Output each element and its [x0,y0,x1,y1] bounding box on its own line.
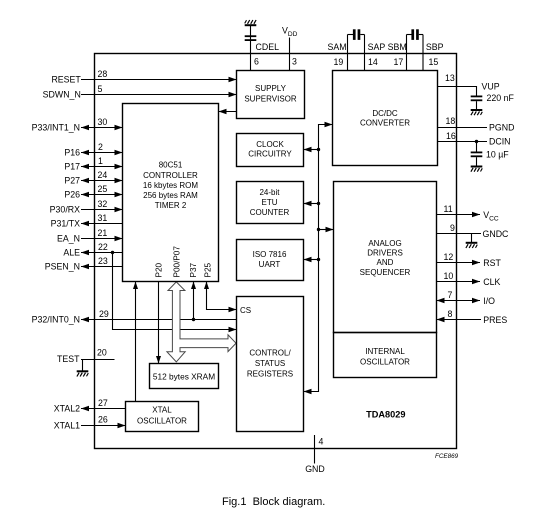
svg-text:21: 21 [98,228,108,238]
svg-text:6: 6 [254,57,259,67]
svg-text:STATUS: STATUS [255,359,285,368]
svg-text:REGISTERS: REGISTERS [247,370,293,379]
svg-text:P32/INT0_N: P32/INT0_N [32,315,80,325]
svg-text:EA_N: EA_N [57,234,80,244]
svg-text:2: 2 [98,142,103,152]
svg-text:7: 7 [448,290,453,300]
svg-text:SBM: SBM [388,42,407,52]
svg-text:23: 23 [98,256,108,266]
svg-text:XTAL: XTAL [152,406,172,415]
svg-text:CIRCUITRY: CIRCUITRY [248,150,292,159]
svg-text:22: 22 [98,242,108,252]
svg-text:P30/RX: P30/RX [50,205,80,215]
svg-text:P20: P20 [154,262,163,277]
svg-text:XTAL2: XTAL2 [54,404,80,414]
svg-text:TEST: TEST [57,354,80,364]
svg-text:GND: GND [305,464,325,474]
svg-text:COUNTER: COUNTER [250,208,290,217]
svg-text:15: 15 [429,57,439,67]
svg-text:OSCILLATOR: OSCILLATOR [360,358,410,367]
svg-text:SAM: SAM [328,42,347,52]
svg-text:9: 9 [450,223,455,233]
svg-text:CS: CS [240,306,251,315]
svg-text:10 µF: 10 µF [486,150,509,160]
svg-text:16 kbytes ROM: 16 kbytes ROM [143,181,198,190]
svg-text:P25: P25 [203,262,212,277]
svg-text:DC/DC: DC/DC [372,109,398,118]
svg-text:RST: RST [483,258,501,268]
svg-text:SDWN_N: SDWN_N [43,90,81,100]
svg-text:P31/TX: P31/TX [51,219,80,229]
svg-text:28: 28 [98,69,108,79]
svg-text:14: 14 [368,57,378,67]
svg-text:INTERNAL: INTERNAL [365,347,405,356]
svg-text:P16: P16 [64,148,80,158]
svg-text:Fig.1 Block diagram.: Fig.1 Block diagram. [222,496,325,508]
svg-text:24: 24 [98,170,108,180]
svg-text:UART: UART [259,260,281,269]
svg-text:512 bytes XRAM: 512 bytes XRAM [153,372,215,382]
svg-text:GNDC: GNDC [483,229,510,239]
svg-text:RESET: RESET [51,75,81,85]
svg-text:CONTROL/: CONTROL/ [249,349,291,358]
svg-text:FCE869: FCE869 [435,453,459,460]
svg-text:26: 26 [98,415,108,425]
svg-text:24-bit: 24-bit [259,188,280,197]
svg-text:I/O: I/O [483,296,495,306]
svg-text:18: 18 [446,116,456,126]
svg-text:P26: P26 [64,190,80,200]
svg-text:SBP: SBP [426,42,444,52]
svg-text:P37: P37 [189,262,198,277]
svg-text:32: 32 [98,199,108,209]
svg-text:PRES: PRES [483,315,507,325]
svg-text:17: 17 [394,57,404,67]
svg-text:ISO 7816: ISO 7816 [253,250,287,259]
svg-text:19: 19 [334,57,344,67]
svg-text:ETU: ETU [262,198,278,207]
svg-text:OSCILLATOR: OSCILLATOR [137,417,187,426]
svg-text:CLOCK: CLOCK [256,140,284,149]
svg-text:TDA8029: TDA8029 [366,410,405,420]
svg-text:CLK: CLK [483,277,500,287]
svg-text:10: 10 [444,271,454,281]
svg-text:XTAL1: XTAL1 [54,421,80,431]
svg-text:31: 31 [98,213,108,223]
svg-text:13: 13 [445,73,455,83]
svg-text:DCIN: DCIN [489,137,511,147]
svg-text:AND: AND [377,258,394,267]
svg-text:11: 11 [444,204,453,214]
svg-text:8: 8 [448,309,453,319]
svg-text:CONTROLLER: CONTROLLER [143,171,198,180]
svg-text:80C51: 80C51 [159,161,183,170]
svg-text:DRIVERS: DRIVERS [367,249,403,258]
svg-text:VUP: VUP [482,82,500,92]
svg-text:CONVERTER: CONVERTER [360,119,410,128]
svg-text:P33/INT1_N: P33/INT1_N [32,123,80,133]
svg-text:ALE: ALE [63,248,80,258]
svg-text:12: 12 [444,252,454,262]
svg-text:25: 25 [98,184,108,194]
svg-text:P17: P17 [64,162,80,172]
svg-text:16: 16 [446,131,456,141]
svg-text:20: 20 [97,348,107,358]
svg-text:P00/P07: P00/P07 [172,246,181,278]
svg-text:CDEL: CDEL [256,42,280,52]
svg-text:SUPPLY: SUPPLY [255,84,287,93]
svg-text:SUPERVISOR: SUPERVISOR [244,95,297,104]
svg-text:ANALOG: ANALOG [368,239,401,248]
svg-text:1: 1 [98,156,103,166]
svg-text:256 bytes RAM: 256 bytes RAM [143,191,198,200]
svg-text:5: 5 [98,84,103,94]
svg-text:TIMER 2: TIMER 2 [155,201,187,210]
svg-text:3: 3 [292,57,297,67]
svg-text:29: 29 [99,309,109,319]
svg-text:4: 4 [319,437,324,447]
svg-text:PSEN_N: PSEN_N [45,262,80,272]
svg-text:SAP: SAP [368,42,386,52]
svg-text:SEQUENCER: SEQUENCER [360,268,411,277]
svg-text:27: 27 [98,398,108,408]
svg-text:220 nF: 220 nF [487,93,515,103]
svg-text:PGND: PGND [489,123,514,133]
svg-text:P27: P27 [64,176,80,186]
svg-text:30: 30 [98,117,108,127]
